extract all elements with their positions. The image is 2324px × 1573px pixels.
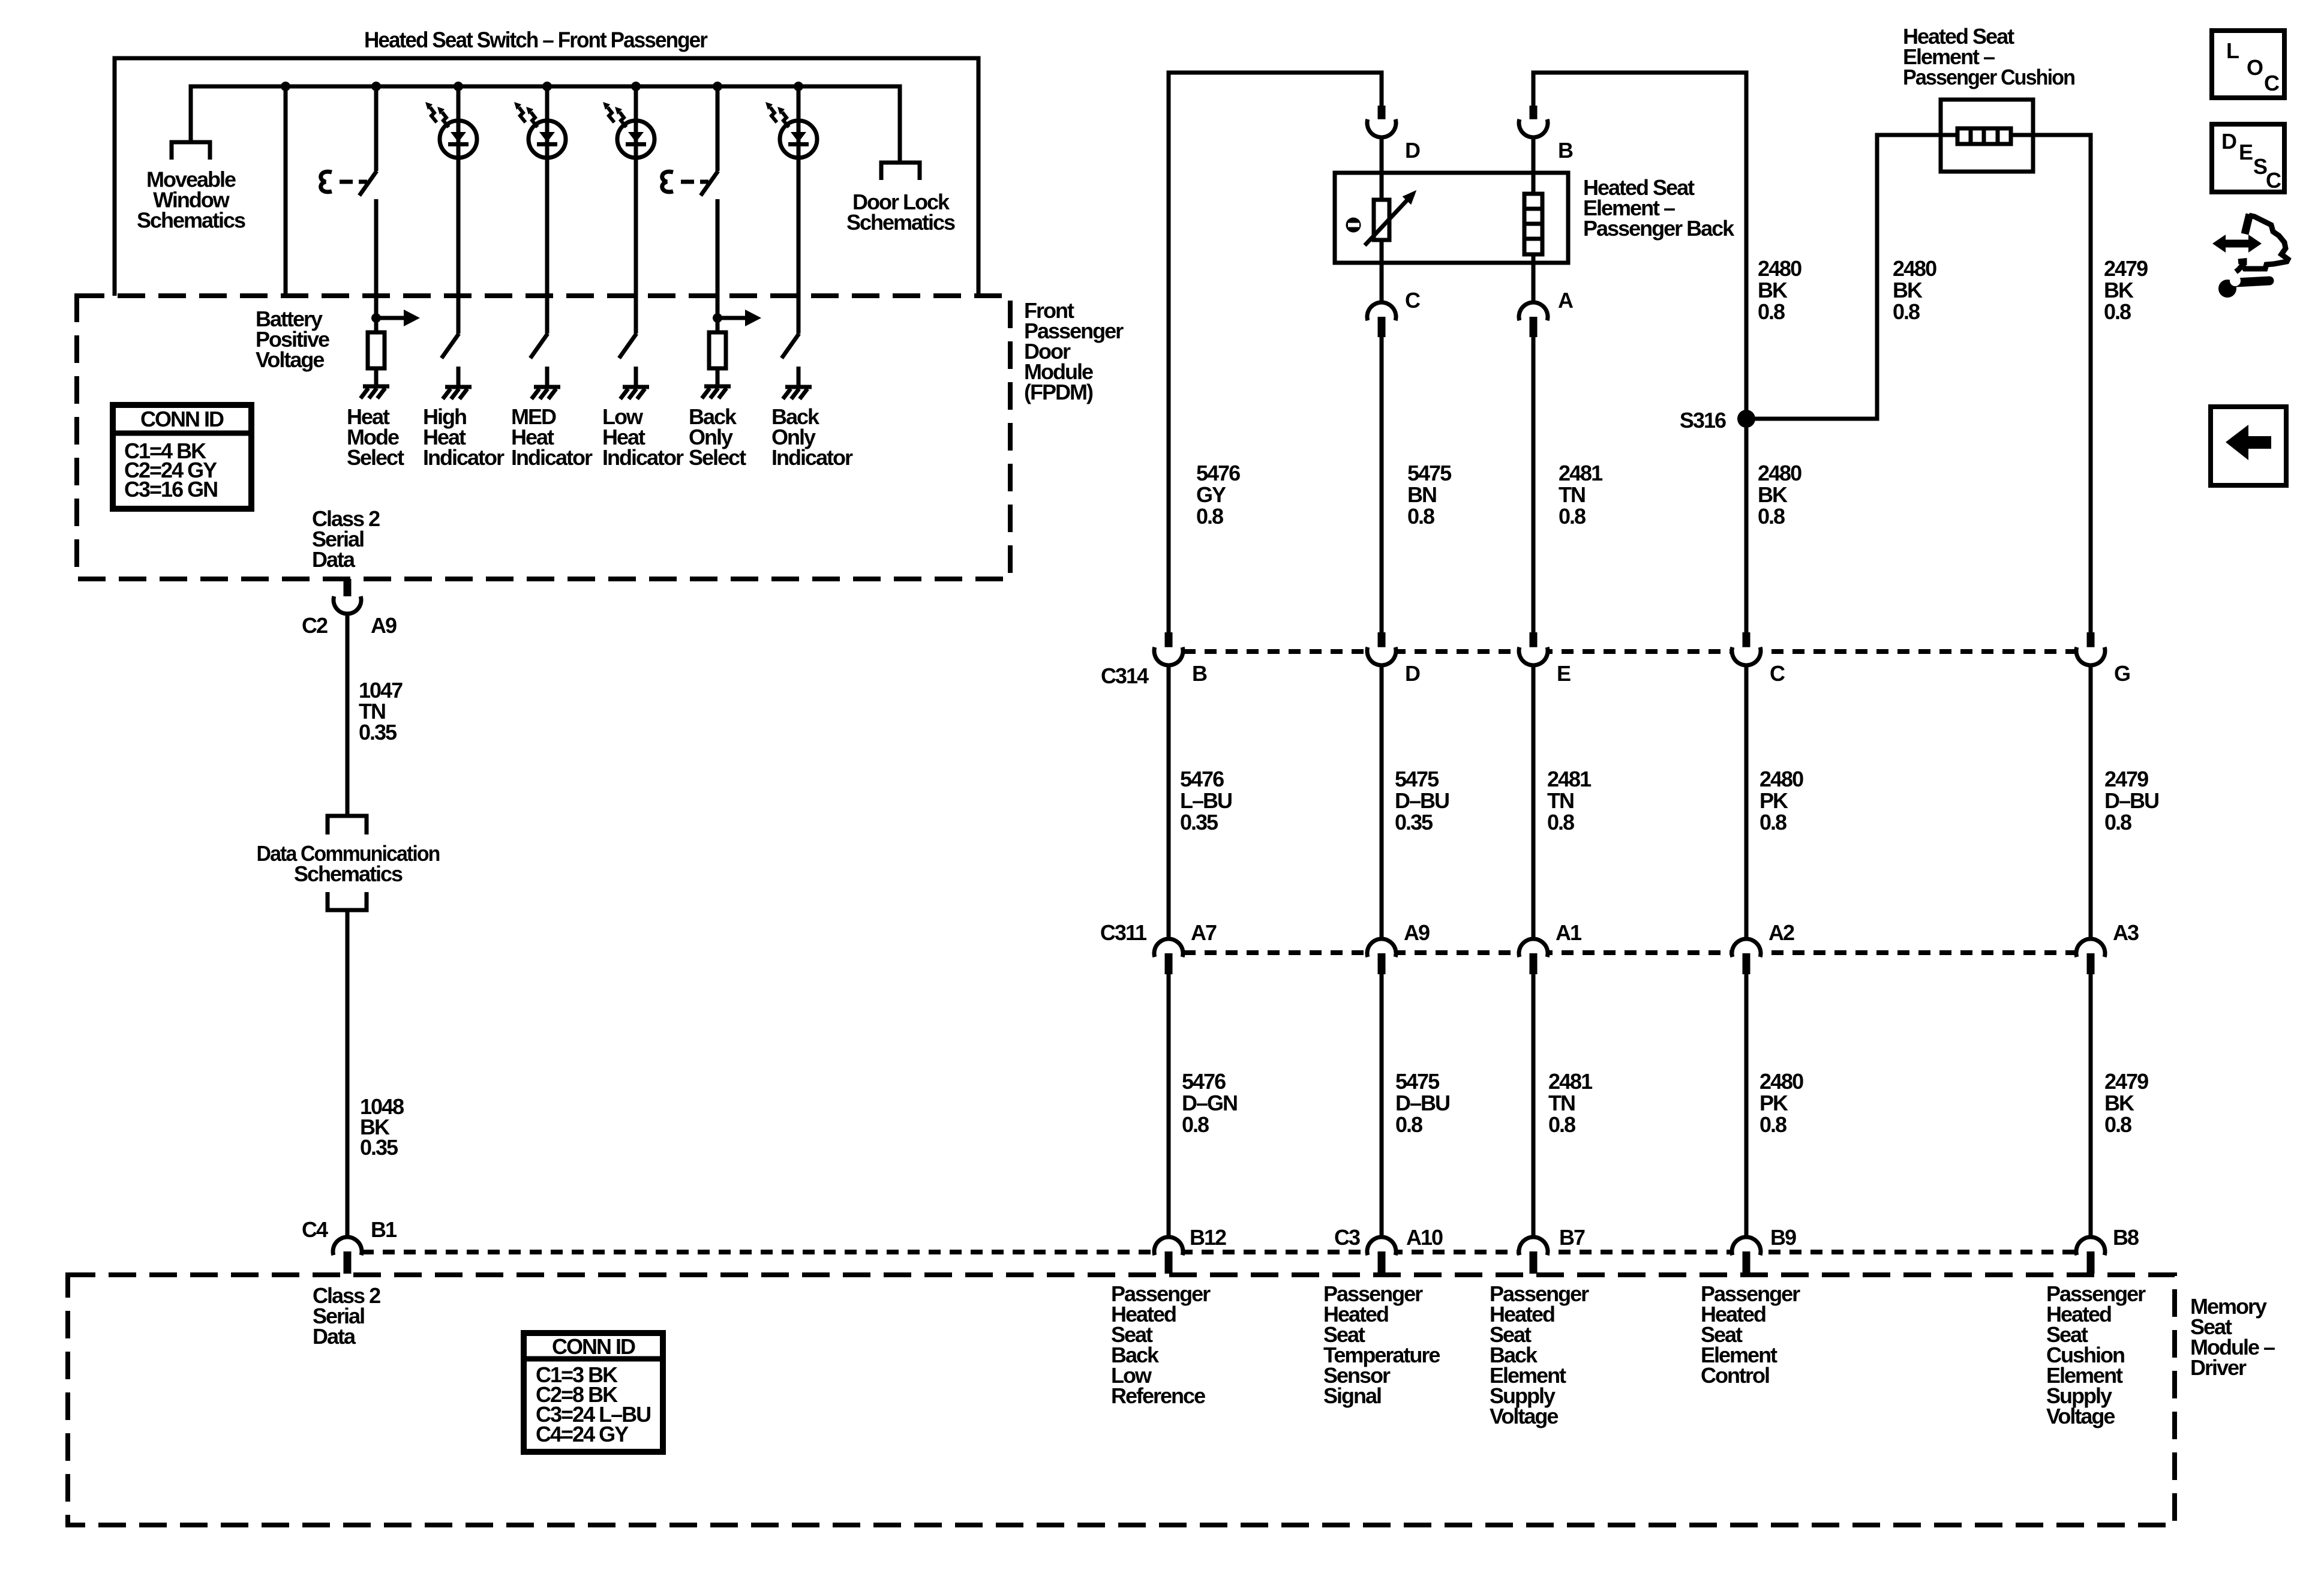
svg-text:Voltage: Voltage [2046,1404,2115,1428]
svg-text:5475: 5475 [1395,1069,1440,1094]
svg-text:2480: 2480 [1893,256,1936,281]
svg-text:Indicator: Indicator [602,445,684,470]
svg-text:5475: 5475 [1407,461,1452,485]
svg-text:C: C [2266,168,2281,193]
svg-text:C: C [1770,661,1785,686]
svg-text:D: D [1405,661,1420,686]
svg-text:2481: 2481 [1548,1069,1593,1094]
svg-text:TN: TN [1547,788,1574,813]
svg-text:A2: A2 [1768,920,1794,945]
svg-text:B12: B12 [1190,1225,1226,1250]
svg-text:0.35: 0.35 [1395,810,1433,834]
svg-text:Control: Control [1701,1363,1769,1388]
svg-text:Indicator: Indicator [423,445,505,470]
svg-text:D–BU: D–BU [1395,1091,1449,1115]
svg-text:C2: C2 [302,613,328,638]
svg-text:BN: BN [1407,482,1436,507]
svg-text:Driver: Driver [2190,1355,2247,1380]
svg-text:Indicator: Indicator [771,445,853,470]
svg-text:Voltage: Voltage [1490,1404,1558,1428]
svg-text:Data: Data [313,1324,356,1349]
svg-text:A9: A9 [371,613,397,638]
svg-text:Heated Seat Switch – Front Pas: Heated Seat Switch – Front Passenger [364,28,708,52]
svg-text:L: L [2226,38,2239,63]
svg-text:Select: Select [689,445,746,470]
svg-text:BK: BK [2104,278,2134,302]
svg-text:2480: 2480 [1758,256,1801,281]
svg-text:A1: A1 [1556,920,1582,945]
svg-text:BK: BK [2104,1091,2134,1115]
svg-text:Signal: Signal [1323,1383,1381,1408]
svg-text:5475: 5475 [1395,767,1439,791]
svg-text:E: E [1557,661,1571,686]
svg-text:BK: BK [1758,482,1788,507]
svg-text:0.8: 0.8 [1196,504,1223,529]
svg-text:5476: 5476 [1180,767,1224,791]
svg-text:0.8: 0.8 [1559,504,1586,529]
svg-text:Select: Select [347,445,404,470]
svg-text:2481: 2481 [1559,461,1603,485]
svg-text:A: A [1558,288,1574,313]
svg-text:A9: A9 [1404,920,1430,945]
svg-text:TN: TN [1559,482,1585,507]
svg-text:5476: 5476 [1196,461,1240,485]
svg-text:0.8: 0.8 [1548,1112,1575,1137]
svg-text:C4: C4 [302,1217,328,1242]
svg-text:E: E [2239,140,2253,164]
svg-text:Indicator: Indicator [511,445,593,470]
svg-text:BK: BK [1893,278,1923,302]
svg-text:0.8: 0.8 [1758,504,1785,529]
svg-text:0.8: 0.8 [1182,1112,1209,1137]
svg-text:Passenger Cushion: Passenger Cushion [1903,65,2074,89]
svg-text:A7: A7 [1191,920,1217,945]
svg-text:B: B [1192,661,1207,686]
svg-text:2479: 2479 [2104,767,2148,791]
svg-text:Data: Data [312,547,356,572]
svg-text:S316: S316 [1680,408,1726,433]
svg-text:D–BU: D–BU [2104,788,2158,813]
svg-text:Voltage: Voltage [256,347,324,372]
svg-text:2481: 2481 [1547,767,1592,791]
svg-text:2480: 2480 [1759,1069,1803,1094]
svg-text:Passenger Back: Passenger Back [1583,216,1735,241]
svg-text:O: O [2247,55,2263,80]
svg-text:0.8: 0.8 [1759,1112,1786,1137]
svg-text:Schematics: Schematics [294,861,403,886]
svg-text:D–BU: D–BU [1395,788,1449,813]
svg-text:G: G [2114,661,2130,686]
svg-text:B7: B7 [1559,1225,1585,1250]
svg-text:C314: C314 [1101,664,1149,688]
svg-text:2480: 2480 [1758,461,1801,485]
svg-text:C4=24 GY: C4=24 GY [536,1422,629,1446]
svg-text:0.8: 0.8 [1547,810,1574,834]
svg-text:2479: 2479 [2104,1069,2148,1094]
svg-text:A10: A10 [1406,1225,1443,1250]
svg-text:Schematics: Schematics [846,210,955,235]
svg-text:B: B [1558,138,1573,163]
svg-text:2479: 2479 [2104,256,2148,281]
svg-text:0.8: 0.8 [1759,810,1786,834]
svg-text:S: S [2253,154,2267,179]
svg-text:B9: B9 [1770,1225,1796,1250]
svg-text:PK: PK [1759,1091,1788,1115]
svg-text:0.35: 0.35 [360,1135,398,1160]
svg-text:0.35: 0.35 [359,720,397,745]
svg-text:0.8: 0.8 [2104,1112,2131,1137]
svg-text:GY: GY [1196,482,1226,507]
svg-text:C: C [1405,288,1421,313]
svg-text:D–GN: D–GN [1182,1091,1237,1115]
svg-text:C3=16 GN: C3=16 GN [124,477,217,502]
svg-text:L–BU: L–BU [1180,788,1232,813]
svg-text:0.35: 0.35 [1180,810,1218,834]
svg-text:C3: C3 [1334,1225,1360,1250]
svg-text:0.8: 0.8 [2104,299,2131,324]
svg-text:CONN ID: CONN ID [552,1334,635,1359]
svg-text:Reference: Reference [1111,1383,1205,1408]
svg-text:Schematics: Schematics [137,208,245,233]
svg-text:PK: PK [1759,788,1788,813]
svg-text:0.8: 0.8 [1407,504,1434,529]
svg-text:5476: 5476 [1182,1069,1226,1094]
svg-text:A3: A3 [2113,920,2139,945]
svg-text:B8: B8 [2113,1225,2139,1250]
svg-text:0.8: 0.8 [1395,1112,1422,1137]
svg-text:0.8: 0.8 [1758,299,1785,324]
svg-text:0.8: 0.8 [2104,810,2131,834]
svg-text:CONN ID: CONN ID [140,407,224,431]
svg-text:D: D [2221,129,2236,154]
svg-text:BK: BK [1758,278,1788,302]
svg-text:0.8: 0.8 [1893,299,1920,324]
svg-text:(FPDM): (FPDM) [1024,380,1093,404]
svg-text:D: D [1405,138,1420,163]
svg-text:C311: C311 [1100,920,1147,945]
svg-text:B1: B1 [371,1217,397,1242]
svg-text:TN: TN [1548,1091,1575,1115]
svg-text:2480: 2480 [1759,767,1803,791]
svg-text:C: C [2264,71,2280,95]
